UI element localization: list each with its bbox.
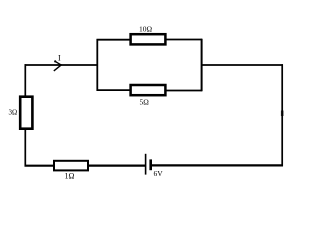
svg-text:3Ω: 3Ω bbox=[9, 109, 18, 117]
svg-text:6V: 6V bbox=[154, 169, 164, 178]
wire: left vertical lower segment bbox=[24, 130, 26, 167]
wire: top-left horizontal segment bbox=[25, 64, 98, 66]
resistor 3ohm (left vertical box) bbox=[20, 97, 32, 129]
wire: right vertical segment bbox=[281, 64, 283, 166]
wire: left vertical upper segment bbox=[24, 64, 26, 96]
wire: bottom branch right stub bbox=[166, 90, 202, 92]
resistor 10ohm (top branch box) bbox=[131, 34, 166, 44]
wire: small ink blob on right vertical wire bbox=[281, 111, 284, 117]
resistor 1ohm (bottom box) bbox=[54, 161, 88, 171]
resistor 5ohm (bottom branch box) bbox=[131, 85, 166, 95]
battery 6V: long plate bbox=[145, 154, 147, 175]
node: right parallel junction vertical bbox=[201, 39, 203, 91]
wire: top branch right stub bbox=[166, 39, 202, 41]
svg-text:1Ω: 1Ω bbox=[65, 172, 75, 181]
wire: bottom-right horizontal segment bbox=[152, 164, 283, 166]
battery 6V: short plate bbox=[149, 159, 152, 170]
current arrow bbox=[54, 60, 62, 71]
wire: top branch left stub bbox=[97, 39, 131, 41]
svg-text:I: I bbox=[58, 54, 61, 63]
wire: middle-right horizontal segment bbox=[201, 64, 283, 66]
svg-text:10Ω: 10Ω bbox=[139, 25, 153, 34]
node: left parallel junction vertical bbox=[96, 39, 98, 91]
wire: bottom middle horizontal segment bbox=[88, 165, 145, 167]
wire: bottom-left horizontal segment bbox=[25, 165, 55, 167]
svg-text:5Ω: 5Ω bbox=[140, 97, 150, 106]
wire: bottom branch left stub bbox=[97, 89, 131, 91]
